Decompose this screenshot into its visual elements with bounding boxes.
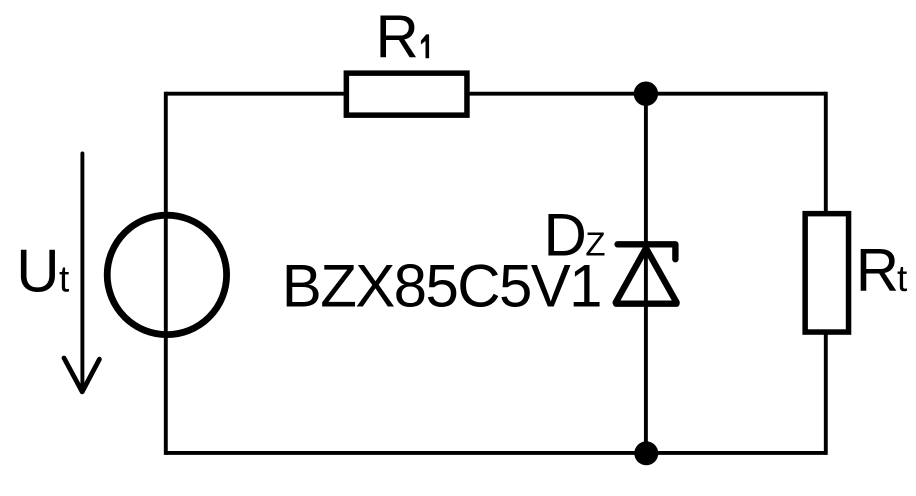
node bottom junction (634, 441, 658, 465)
wire middle branch (644, 94, 648, 453)
svg-text:Ut: Ut (16, 238, 70, 305)
wire top rail (166, 92, 826, 96)
resistor R1 (346, 73, 467, 115)
wire right branch (824, 92, 828, 455)
zener diode Dz anode triangle (616, 248, 677, 304)
svg-text:BZX85C5V1: BZX85C5V1 (282, 253, 601, 320)
wire left branch (164, 92, 168, 455)
svg-text:Rt: Rt (856, 237, 908, 304)
svg-text:R: R (376, 4, 419, 71)
zener diode Dz cathode bar with hook (618, 244, 676, 259)
node top junction (634, 82, 658, 106)
voltage source U (107, 215, 226, 334)
arrow Ut direction (64, 154, 99, 392)
resistor Rt (805, 214, 848, 332)
wire bottom rail (166, 451, 826, 455)
